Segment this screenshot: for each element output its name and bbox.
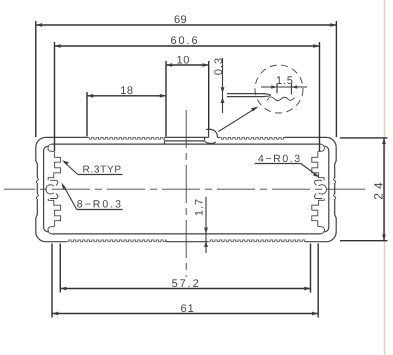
dimension 57.2 [60, 244, 310, 293]
top inner line [52, 143, 321, 145]
label 4-R0.3 [255, 153, 320, 177]
pcb guide pad and cup [165, 129, 216, 144]
svg-text:57.2: 57.2 [172, 278, 201, 290]
inner side wall left [44, 146, 48, 232]
dimension 1.7 [194, 197, 208, 253]
vertical centerline [185, 110, 187, 277]
wall break squiggle right [334, 178, 336, 199]
svg-text:1.5: 1.5 [276, 75, 294, 87]
body outline: bottom edge [36, 232, 336, 242]
right screw channel lower [312, 199, 325, 234]
svg-text:10: 10 [177, 55, 190, 67]
bottom wall castellation left [67, 240, 167, 242]
svg-text:18: 18 [120, 85, 133, 97]
left screw channel upper [48, 144, 61, 180]
svg-text:69: 69 [174, 14, 187, 26]
detail leader arrow [219, 107, 259, 132]
svg-text:60.6: 60.6 [171, 35, 200, 47]
dimension 61 [52, 244, 318, 318]
detail break wave [267, 97, 295, 101]
svg-text:24: 24 [372, 178, 386, 199]
dimension 10 [166, 55, 209, 137]
dimension 69 [36, 14, 337, 137]
body outline: top edge [46, 137, 336, 147]
top wall castellation right [219, 137, 285, 139]
svg-text:8−R0.3: 8−R0.3 [77, 199, 123, 211]
edge artifact line [384, 0, 386, 355]
right screw hole [315, 180, 327, 198]
svg-text:1.7: 1.7 [194, 198, 206, 216]
body outline: right wall [335, 147, 337, 231]
svg-text:61: 61 [181, 303, 195, 315]
svg-text:0.3: 0.3 [213, 57, 225, 75]
horizontal centerline [4, 188, 369, 190]
dimension 60.6 [55, 35, 320, 151]
detail wedge (magnified rail lip) [227, 94, 271, 97]
dimension 18 [87, 85, 166, 137]
inner side wall right [324, 146, 328, 232]
dimension 1.5 (in detail) [261, 75, 307, 95]
body outline: left wall [36, 147, 38, 231]
wall break squiggle left [36, 178, 38, 199]
left screw hole [46, 180, 58, 198]
right screw channel upper [312, 144, 325, 180]
label R.3TYP [62, 160, 123, 175]
detail circle [255, 65, 303, 113]
left screw channel lower [48, 199, 61, 234]
svg-text:R.3TYP: R.3TYP [83, 165, 122, 176]
top wall castellation left [87, 137, 165, 139]
label 8-R0.3 [62, 183, 123, 211]
pcb rail tab on top wall [209, 129, 218, 137]
dimension 0.3 (detail) [213, 57, 225, 113]
bottom wall castellation right [208, 240, 306, 242]
body outline: top-left corner [36, 137, 46, 147]
bottom inner line [52, 233, 321, 235]
dimension 24 [340, 138, 388, 241]
